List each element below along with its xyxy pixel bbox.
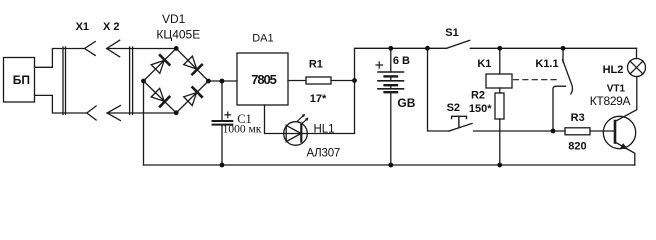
svg-text:HL1: HL1	[313, 123, 334, 135]
wire: БП top stub	[35, 49, 85, 68]
svg-text:820: 820	[568, 141, 586, 153]
junction: R2 on bottom rail	[497, 163, 502, 168]
relay coil K1 box	[486, 74, 512, 88]
svg-text:VT1: VT1	[607, 84, 626, 95]
junction: K1 branch on top rail	[497, 46, 502, 51]
connector X1 socket fork bottom	[87, 106, 96, 120]
junction: S2 branch on top rail	[425, 46, 430, 51]
wire: S2 branch from top rail	[428, 48, 450, 131]
switch S1 lever	[447, 40, 470, 48]
svg-text:КТ829А: КТ829А	[590, 94, 631, 108]
wire: C1 branch down	[221, 81, 223, 121]
junction: bridge left corner (minus)	[141, 79, 146, 84]
svg-text:БП: БП	[13, 73, 30, 87]
wire: R1 to node	[331, 80, 355, 82]
VT1 emitter	[615, 142, 635, 165]
resistor R2	[495, 93, 504, 119]
resistor R1	[306, 77, 331, 84]
wire: R2 to bottom rail	[499, 119, 501, 165]
op-amp U1 : voltage regulator DA1 7805 box	[237, 53, 288, 105]
svg-text:КЦ405Е: КЦ405Е	[156, 28, 200, 42]
svg-text:17*: 17*	[310, 93, 327, 105]
diode VD1b	[184, 56, 197, 69]
svg-text:R1: R1	[309, 59, 323, 71]
junction: C1 tap on plus wire	[220, 79, 225, 84]
lamp HL2	[636, 48, 638, 58]
junction: bridge right corner (plus)	[206, 79, 211, 84]
svg-text:HL2: HL2	[603, 64, 624, 76]
connector X1 socket fork top	[85, 42, 96, 56]
LED HL1	[284, 122, 308, 146]
junction: battery minus on bottom rail	[388, 163, 393, 168]
junction: bridge top corner (AC)	[174, 46, 179, 51]
wire: S2 to R3 line	[474, 130, 566, 132]
junction: S2/K1.1/R3 node	[551, 129, 556, 134]
diode VD1c	[151, 88, 164, 101]
wire: C1 to bottom rail	[221, 125, 223, 165]
K1.1 mechanical link dashed	[514, 79, 560, 81]
connector X2 pin arrow top	[107, 40, 120, 57]
diode VD1d	[184, 93, 197, 106]
relay coil K1 branch	[499, 48, 501, 74]
connector X1 frame	[63, 47, 66, 115]
wire: top rail	[355, 48, 447, 80]
connector X2 frame	[130, 47, 133, 115]
svg-text:K1: K1	[477, 58, 491, 70]
junction: battery plus on top rail	[388, 46, 393, 51]
wire: DA1 output to R1	[288, 80, 306, 82]
capacitor C1 plates	[213, 120, 233, 122]
svg-text:S2: S2	[447, 102, 460, 114]
svg-text:7805: 7805	[251, 72, 276, 87]
diode bridge VD1 diamond	[144, 48, 209, 112]
relay contact K1.1	[562, 48, 564, 62]
svg-text:GB: GB	[397, 96, 415, 110]
svg-text:S1: S1	[445, 27, 458, 39]
svg-text:X 2: X 2	[103, 21, 120, 33]
svg-text:АЛ307: АЛ307	[306, 148, 340, 160]
battery plus sign	[376, 62, 383, 68]
svg-text:X1: X1	[76, 21, 89, 33]
battery GB	[390, 48, 392, 165]
pushbutton S2	[449, 124, 472, 132]
transistor VT1	[603, 116, 635, 148]
wire: R3 to VT1 base	[590, 130, 615, 132]
junction: bridge bottom corner (AC)	[174, 110, 179, 115]
connector X2 pin arrow bottom	[107, 106, 120, 121]
svg-text:R3: R3	[571, 112, 585, 124]
wire: HL1 to node vertical	[307, 81, 354, 134]
C1 plus sign	[225, 112, 231, 118]
VT1 collector	[615, 77, 637, 122]
svg-text:R2: R2	[471, 89, 485, 101]
diode VD1a	[151, 60, 164, 73]
wire: K1 to R2	[499, 88, 501, 93]
svg-text:6 В: 6 В	[393, 55, 410, 67]
wire: bridge plus to DA1	[208, 80, 237, 82]
svg-text:K1.1: K1.1	[535, 58, 558, 70]
wire: bridge minus down to bottom rail	[143, 81, 145, 165]
junction: R1 output node	[352, 78, 357, 83]
wire: БП bottom stub	[35, 95, 87, 113]
svg-text:150*: 150*	[469, 103, 492, 115]
junction: K1.1 branch on top rail	[561, 46, 566, 51]
svg-text:VD1: VD1	[162, 12, 186, 26]
wire: DA1 ground pin to HL1	[265, 105, 284, 134]
wire: top rail right of S1	[470, 47, 636, 49]
wire: X2 bottom to bridge	[107, 112, 176, 114]
resistor R3	[565, 128, 590, 135]
svg-text:1000 мк: 1000 мк	[223, 124, 262, 136]
junction: C1 on bottom rail	[220, 163, 225, 168]
svg-text:DA1: DA1	[252, 33, 273, 45]
wire: bottom rail	[144, 164, 635, 166]
HL1 emission arrows	[298, 116, 303, 121]
power supply box БП	[4, 58, 35, 103]
wire: X2 top to bridge	[107, 48, 177, 50]
